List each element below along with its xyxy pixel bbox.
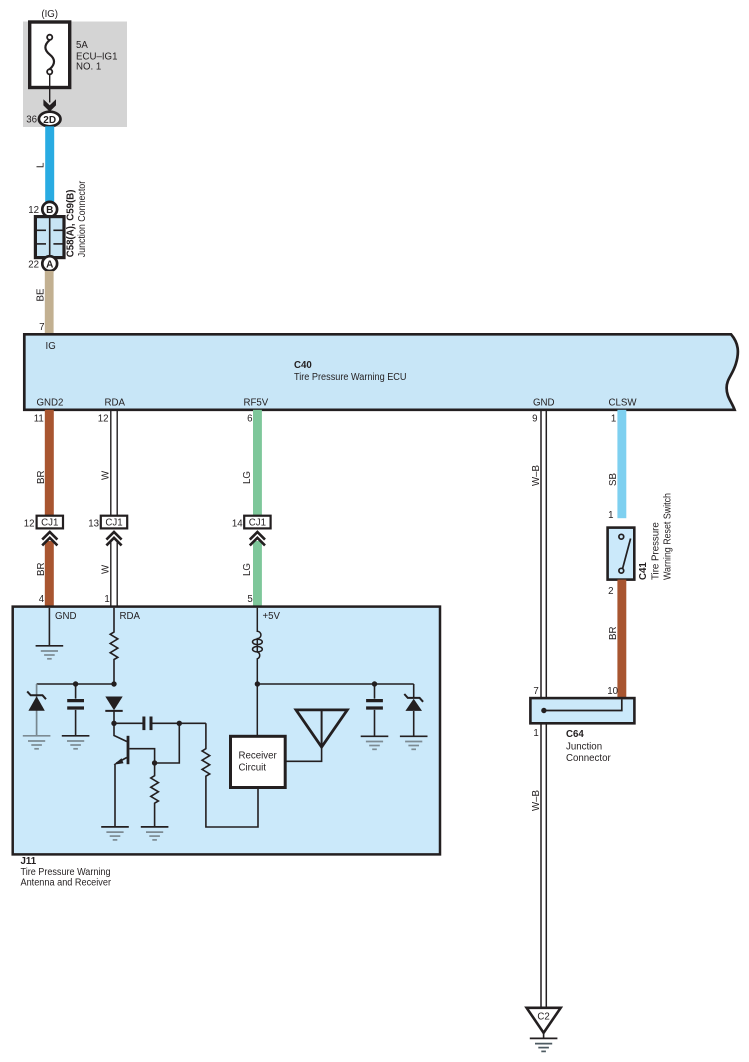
svg-text:7: 7 xyxy=(533,686,538,697)
svg-text:1: 1 xyxy=(533,728,538,739)
svg-text:BE: BE xyxy=(36,288,47,301)
svg-text:Antenna and Receiver: Antenna and Receiver xyxy=(21,877,112,888)
svg-text:13: 13 xyxy=(88,518,99,529)
wire L (cyan) xyxy=(45,126,54,202)
ground (GND pin) xyxy=(36,646,64,659)
wire color label W-B lower xyxy=(531,790,542,811)
svg-text:Warning Reset Switch: Warning Reset Switch xyxy=(663,493,674,580)
svg-text:10: 10 xyxy=(607,686,618,697)
C40 pin numbers xyxy=(34,414,617,425)
C41 labels xyxy=(638,493,674,580)
J11 pin name RDA xyxy=(120,611,141,622)
arrow into node 2D xyxy=(43,99,56,111)
svg-text:GND2: GND2 xyxy=(37,398,64,409)
node +5V xyxy=(255,681,414,686)
wire color label W xyxy=(101,564,112,574)
svg-text:12: 12 xyxy=(98,414,109,425)
svg-text:GND: GND xyxy=(55,611,77,622)
C64 pin 7 label xyxy=(533,686,538,697)
wire color label BR xyxy=(36,471,47,484)
fuse element xyxy=(45,35,54,75)
svg-text:C58(A), C59(B): C58(A), C59(B) xyxy=(66,189,77,257)
ground (emitter) xyxy=(101,827,129,840)
transistor emitter arrow xyxy=(114,758,124,827)
svg-text:SB: SB xyxy=(608,473,619,486)
resistor R1 on RDA line xyxy=(110,608,118,684)
svg-text:5: 5 xyxy=(247,594,252,605)
svg-text:4: 4 xyxy=(39,594,45,605)
wire color label W xyxy=(101,470,112,480)
svg-text:BR: BR xyxy=(36,471,47,484)
node below diode xyxy=(111,721,143,726)
wire color label BR xyxy=(36,563,47,576)
svg-text:BR: BR xyxy=(36,563,47,576)
wire BR segment 1 (GND2) xyxy=(45,410,54,516)
fuse value label xyxy=(76,40,117,73)
pin 12 label xyxy=(28,205,39,216)
svg-text:L: L xyxy=(36,162,47,168)
pin 5 label xyxy=(247,594,252,605)
svg-text:Junction: Junction xyxy=(566,742,602,753)
ground C2 triangle xyxy=(527,1008,561,1039)
node (IG) label xyxy=(41,9,58,20)
diode D1 xyxy=(105,697,122,724)
svg-text:2: 2 xyxy=(608,586,613,597)
svg-text:12: 12 xyxy=(28,205,39,216)
svg-text:W: W xyxy=(101,564,112,574)
ECU C40 box xyxy=(24,334,738,410)
chevron junction symbol xyxy=(106,532,121,545)
wire color label BR xyxy=(608,627,619,640)
svg-text:6: 6 xyxy=(247,414,252,425)
wire color label L xyxy=(36,162,47,168)
svg-text:+5V: +5V xyxy=(263,611,281,622)
svg-text:RF5V: RF5V xyxy=(244,398,269,409)
svg-text:(IG): (IG) xyxy=(41,9,58,20)
pin 7 label xyxy=(39,322,44,333)
C64 pin 10 label xyxy=(607,686,618,697)
wire W segment 1 (RDA) xyxy=(111,410,117,516)
svg-text:C40: C40 xyxy=(294,360,312,371)
wire LG segment 1 (RF5V) xyxy=(253,410,262,516)
svg-text:C41: C41 xyxy=(638,562,649,580)
wire LG segment 2 xyxy=(253,541,262,607)
J11 pin name GND xyxy=(55,611,77,622)
svg-text:CLSW: CLSW xyxy=(609,398,638,409)
antenna xyxy=(285,710,347,761)
svg-text:1: 1 xyxy=(608,510,613,521)
svg-text:W: W xyxy=(101,470,112,480)
wire SB (CLSW) xyxy=(617,410,626,518)
J11 labels xyxy=(21,856,112,888)
ground (R2) xyxy=(141,827,169,840)
svg-text:A: A xyxy=(46,259,53,270)
J11 box xyxy=(13,607,440,855)
capacitor C3 xyxy=(366,684,383,736)
wire W-B (GND pin 9) xyxy=(541,410,546,1008)
wire color label BE xyxy=(36,288,47,301)
resistor R3 xyxy=(202,723,258,827)
zener diode ZD1 branch (gray wire) xyxy=(36,684,38,736)
connector CJ1 pin 13 xyxy=(88,516,127,530)
junction connector C64 box xyxy=(530,698,634,723)
svg-text:9: 9 xyxy=(532,414,537,425)
wire color label SB xyxy=(608,473,619,486)
wire GND to ground xyxy=(48,608,50,646)
chevron junction symbol xyxy=(250,532,265,545)
svg-text:Tire Pressure: Tire Pressure xyxy=(651,522,662,580)
svg-text:IG: IG xyxy=(46,341,56,352)
wire color label LG xyxy=(242,471,253,484)
C40 labels xyxy=(37,341,638,409)
svg-text:1: 1 xyxy=(104,594,109,605)
J11 pin name +5V xyxy=(263,611,281,622)
svg-text:GND: GND xyxy=(533,398,555,409)
connector CJ1 pin 12 xyxy=(24,516,63,530)
svg-text:Junction Connector: Junction Connector xyxy=(77,180,88,257)
connector cavity B xyxy=(42,202,57,217)
inductor L1 xyxy=(253,608,263,737)
wire color label W-B xyxy=(531,465,542,486)
C64 labels xyxy=(566,729,611,764)
C41 pin 2 label xyxy=(608,586,613,597)
svg-text:14: 14 xyxy=(232,518,243,529)
svg-text:36: 36 xyxy=(26,114,37,125)
wire fuse to node 2D xyxy=(49,74,51,102)
capacitor C1 xyxy=(67,684,84,736)
svg-text:RDA: RDA xyxy=(105,398,126,409)
chevron junction symbol xyxy=(42,532,57,545)
connector CJ1 pin 14 xyxy=(232,516,271,530)
svg-text:1: 1 xyxy=(611,414,616,425)
pin 1 label xyxy=(104,594,109,605)
wire BE (beige) xyxy=(45,271,54,334)
capacitor C2 (coupling) xyxy=(144,717,206,731)
svg-text:J11: J11 xyxy=(21,856,37,867)
node 2D oval xyxy=(39,112,61,127)
svg-text:Tire Pressure Warning ECU: Tire Pressure Warning ECU xyxy=(294,372,407,383)
ground symbol C2 xyxy=(530,1038,558,1051)
svg-text:C2: C2 xyxy=(537,1012,549,1023)
wire color label LG xyxy=(242,563,253,576)
svg-text:Circuit: Circuit xyxy=(239,763,267,774)
svg-text:11: 11 xyxy=(34,414,44,425)
ground (ZD1, gray) xyxy=(23,736,51,749)
svg-text:NO. 1: NO. 1 xyxy=(76,62,101,73)
svg-text:2D: 2D xyxy=(43,115,56,126)
svg-text:CJ1: CJ1 xyxy=(105,518,122,529)
wire node to base resistor xyxy=(155,723,180,763)
svg-text:12: 12 xyxy=(24,518,35,529)
pin 36 label xyxy=(26,114,37,125)
switch C41 box xyxy=(608,528,635,580)
ground (ZD2) xyxy=(400,736,428,749)
zener diode ZD1 xyxy=(27,691,46,710)
svg-text:LG: LG xyxy=(242,471,253,484)
node bus left xyxy=(37,681,117,686)
transistor Q1 xyxy=(114,723,155,764)
pin 22 label xyxy=(28,260,39,271)
svg-text:BR: BR xyxy=(608,627,619,640)
svg-text:22: 22 xyxy=(28,260,39,271)
svg-text:CJ1: CJ1 xyxy=(41,518,58,529)
junction connector C58 grid xyxy=(35,217,64,258)
wire BR segment 2 xyxy=(45,541,54,607)
junction connector C58 labels xyxy=(66,180,89,257)
svg-text:C64: C64 xyxy=(566,729,584,740)
receiver circuit box xyxy=(231,736,286,787)
power source shading block xyxy=(23,22,127,128)
svg-text:W–B: W–B xyxy=(531,790,542,811)
svg-text:Connector: Connector xyxy=(566,753,611,764)
svg-text:B: B xyxy=(46,205,53,216)
pin 4 label xyxy=(39,594,45,605)
connector cavity A xyxy=(42,256,57,271)
svg-text:CJ1: CJ1 xyxy=(249,518,266,529)
wire W segment 2 xyxy=(111,541,117,607)
C41 pin 1 label xyxy=(608,510,613,521)
svg-text:7: 7 xyxy=(39,322,44,333)
svg-text:LG: LG xyxy=(242,563,253,576)
ground (C3) xyxy=(361,736,389,749)
svg-text:RDA: RDA xyxy=(120,611,141,622)
resistor R2 (base) xyxy=(151,760,159,827)
wire BR (reset switch to C64) xyxy=(617,580,626,699)
svg-text:5A: 5A xyxy=(76,40,88,51)
svg-text:Receiver: Receiver xyxy=(239,751,278,762)
C64 pin 1 label xyxy=(533,728,538,739)
fuse F1 5A ECU-IG1 NO.1 box xyxy=(30,22,70,88)
ground (C1) xyxy=(62,736,90,749)
svg-text:W–B: W–B xyxy=(531,465,542,486)
zener diode ZD2 xyxy=(404,684,423,736)
